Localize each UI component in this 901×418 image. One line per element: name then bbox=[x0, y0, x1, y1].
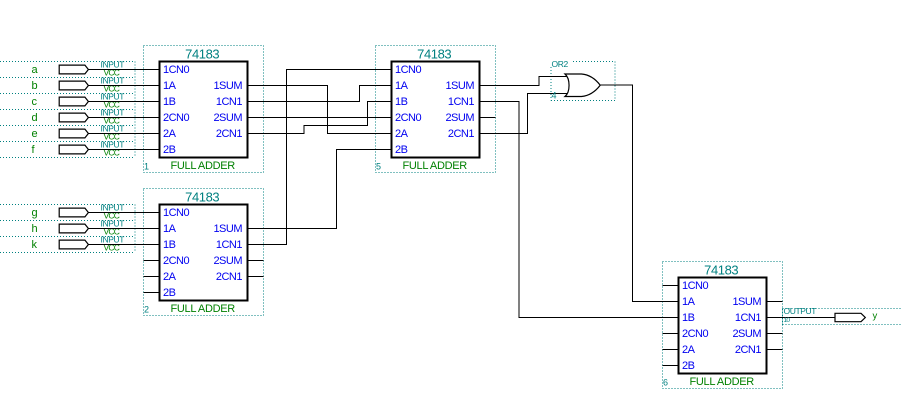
wire U3 2CN1 to OR2 input 2 bbox=[480, 94, 571, 134]
terminal symbol k bbox=[59, 240, 88, 249]
svg-text:FULL ADDER: FULL ADDER bbox=[402, 160, 467, 172]
input terminal b bbox=[32, 76, 125, 94]
svg-text:c: c bbox=[32, 96, 38, 108]
terminal symbol c bbox=[59, 97, 88, 106]
svg-text:1B: 1B bbox=[163, 239, 176, 251]
wire U2 1SUM to U3 2B bbox=[248, 150, 392, 229]
svg-text:FULL ADDER: FULL ADDER bbox=[170, 303, 235, 315]
svg-text:1CN1: 1CN1 bbox=[735, 312, 762, 324]
svg-text:OR2: OR2 bbox=[552, 59, 569, 69]
wire U1 1SUM to U3 2A bbox=[248, 86, 392, 134]
svg-text:1CN1: 1CN1 bbox=[216, 96, 243, 108]
body U2 bbox=[160, 205, 248, 301]
svg-text:6: 6 bbox=[663, 378, 668, 388]
input terminal c bbox=[32, 92, 125, 110]
terminal symbol b bbox=[59, 81, 88, 90]
selection box output terminal y bbox=[783, 309, 901, 325]
terminal symbol g bbox=[59, 208, 88, 217]
terminal symbol y bbox=[835, 313, 865, 321]
svg-text:1CN1: 1CN1 bbox=[216, 239, 243, 251]
wire U1 1CN1 to U3 1A bbox=[248, 86, 392, 102]
pin stubs U3 bbox=[376, 70, 496, 150]
selection box U1 bbox=[144, 46, 264, 173]
svg-text:74183: 74183 bbox=[185, 46, 219, 61]
svg-text:1: 1 bbox=[144, 162, 149, 172]
svg-text:2SUM: 2SUM bbox=[213, 112, 242, 124]
body U1 bbox=[160, 62, 248, 158]
svg-text:FULL ADDER: FULL ADDER bbox=[170, 160, 235, 172]
svg-text:2CN0: 2CN0 bbox=[163, 255, 190, 267]
svg-text:2B: 2B bbox=[163, 287, 176, 299]
svg-text:1CN0: 1CN0 bbox=[682, 280, 709, 292]
svg-text:1A: 1A bbox=[682, 296, 696, 308]
svg-text:2B: 2B bbox=[682, 360, 695, 372]
svg-text:1SUM: 1SUM bbox=[213, 223, 242, 235]
body U4 bbox=[679, 278, 767, 374]
terminal symbol h bbox=[59, 224, 88, 233]
wire U1 2SUM to U3 2CN0 bbox=[248, 117, 392, 119]
svg-text:1B: 1B bbox=[163, 96, 176, 108]
wire c to U1 1B bbox=[88, 101, 159, 103]
selection box input group g,h,k bbox=[0, 205, 135, 253]
svg-text:FULL ADDER: FULL ADDER bbox=[689, 376, 754, 388]
pin stubs U1 bbox=[144, 70, 264, 150]
svg-text:1SUM: 1SUM bbox=[732, 296, 761, 308]
pin stubs U2 bbox=[144, 213, 264, 293]
pin stubs U4 bbox=[663, 286, 783, 366]
svg-text:2CN1: 2CN1 bbox=[735, 344, 762, 356]
wire U1 2CN1 to U3 1B bbox=[248, 102, 392, 134]
selection box U2 bbox=[144, 189, 264, 316]
svg-text:1CN0: 1CN0 bbox=[163, 207, 190, 219]
wire h to U2 1A bbox=[88, 228, 159, 230]
svg-text:a: a bbox=[32, 64, 39, 76]
wire k to U2 1B bbox=[88, 244, 159, 246]
terminal symbol d bbox=[59, 113, 88, 122]
svg-text:1B: 1B bbox=[395, 96, 408, 108]
selection box OR2 gate bbox=[551, 62, 615, 101]
input terminal e bbox=[32, 124, 125, 142]
svg-text:1SUM: 1SUM bbox=[445, 80, 474, 92]
svg-text:2SUM: 2SUM bbox=[732, 328, 761, 340]
svg-text:4: 4 bbox=[552, 91, 557, 101]
or gate OR2 bbox=[552, 59, 601, 101]
svg-text:74183: 74183 bbox=[185, 189, 219, 204]
svg-text:5: 5 bbox=[376, 162, 381, 172]
svg-text:2SUM: 2SUM bbox=[213, 255, 242, 267]
svg-text:d: d bbox=[32, 112, 38, 124]
wire e to U1 2A bbox=[88, 133, 159, 135]
svg-text:2SUM: 2SUM bbox=[445, 112, 474, 124]
wire d to U1 2CN0 bbox=[88, 117, 159, 119]
input terminal f bbox=[32, 140, 125, 158]
svg-text:2CN1: 2CN1 bbox=[448, 128, 475, 140]
wire U4 1CN1 to output y bbox=[767, 317, 836, 319]
wire U3 1SUM to OR2 input 1 bbox=[480, 77, 571, 86]
wire OR2 output to U4 1A bbox=[601, 85, 679, 302]
svg-text:2A: 2A bbox=[163, 128, 177, 140]
svg-text:2A: 2A bbox=[163, 271, 177, 283]
terminal symbol e bbox=[59, 129, 88, 138]
svg-text:2B: 2B bbox=[163, 144, 176, 156]
svg-text:2CN1: 2CN1 bbox=[216, 271, 243, 283]
full adder U3 (74183) bbox=[376, 46, 496, 173]
wire a to U1 1CN0 bbox=[88, 69, 159, 71]
svg-text:1B: 1B bbox=[682, 312, 695, 324]
svg-text:e: e bbox=[32, 128, 38, 140]
wire U3 1CN1 to U4 1B bbox=[480, 102, 679, 318]
full adder U4 (74183) bbox=[663, 262, 783, 389]
svg-text:b: b bbox=[32, 80, 38, 92]
svg-text:2B: 2B bbox=[395, 144, 408, 156]
full adder U1 (74183) bbox=[144, 46, 264, 173]
svg-text:1SUM: 1SUM bbox=[213, 80, 242, 92]
svg-text:2CN0: 2CN0 bbox=[163, 112, 190, 124]
terminal symbol a bbox=[59, 65, 88, 74]
wire U2 1CN1 to U3 1CN0 bbox=[248, 70, 392, 245]
svg-text:2CN1: 2CN1 bbox=[216, 128, 243, 140]
input terminal a bbox=[32, 60, 125, 78]
svg-text:h: h bbox=[32, 223, 38, 235]
svg-text:2CN0: 2CN0 bbox=[395, 112, 422, 124]
svg-text:1CN0: 1CN0 bbox=[163, 64, 190, 76]
svg-text:1CN1: 1CN1 bbox=[448, 96, 475, 108]
svg-text:74183: 74183 bbox=[704, 262, 738, 277]
body U3 bbox=[392, 62, 480, 158]
svg-text:1A: 1A bbox=[163, 80, 177, 92]
input terminal g bbox=[32, 203, 125, 221]
selection box input group a-f bbox=[0, 62, 135, 158]
wire g to U2 1CN0 bbox=[88, 212, 159, 214]
selection box U3 bbox=[376, 46, 496, 173]
svg-text:1A: 1A bbox=[163, 223, 177, 235]
svg-text:2CN0: 2CN0 bbox=[682, 328, 709, 340]
svg-text:k: k bbox=[32, 239, 38, 251]
svg-text:1CN0: 1CN0 bbox=[395, 64, 422, 76]
input terminal d bbox=[32, 108, 125, 126]
svg-text:1A: 1A bbox=[395, 80, 409, 92]
input terminal h bbox=[32, 219, 125, 237]
terminal symbol f bbox=[59, 145, 88, 154]
svg-text:OUTPUT: OUTPUT bbox=[784, 306, 817, 316]
gate body OR2 bbox=[565, 74, 600, 97]
svg-text:2: 2 bbox=[144, 305, 149, 315]
wire f to U1 2B bbox=[88, 149, 159, 151]
output terminal y bbox=[784, 306, 878, 324]
selection box U4 bbox=[663, 262, 783, 389]
wire b to U1 1A bbox=[88, 85, 159, 87]
svg-text:g: g bbox=[32, 207, 38, 219]
svg-text:2A: 2A bbox=[682, 344, 696, 356]
svg-text:y: y bbox=[873, 311, 878, 322]
svg-text:2A: 2A bbox=[395, 128, 409, 140]
svg-text:74183: 74183 bbox=[417, 46, 451, 61]
full adder U2 (74183) bbox=[144, 189, 264, 316]
input terminal k bbox=[32, 235, 125, 253]
